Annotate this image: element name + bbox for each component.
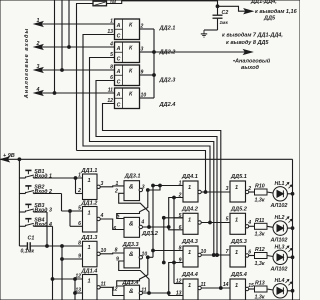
- logic gate ДД4.1: [183, 181, 198, 202]
- wire vx174: [173, 198, 175, 284]
- svg-text:ДД5: ДД5: [263, 16, 276, 22]
- svg-text:&: &: [129, 220, 134, 227]
- output bubble ДД4.4: [198, 286, 201, 289]
- svg-text:HL2: HL2: [275, 215, 285, 221]
- junction dot resistor-row1: [204, 191, 207, 194]
- svg-text:12: 12: [75, 274, 81, 280]
- svg-text:3: 3: [101, 181, 104, 187]
- wire DD3.3 out coupling X: [117, 257, 148, 286]
- svg-text:Вход 4: Вход 4: [35, 222, 53, 228]
- wire DD3.1 out to DD4.1 in1: [148, 186, 183, 191]
- svg-text:5: 5: [179, 213, 182, 219]
- arrow analog input 1: [35, 22, 43, 27]
- junction dot v62-line3: [61, 69, 64, 72]
- junction dot x168 row4: [167, 292, 170, 295]
- wire to DD1.2 pin5: [62, 210, 83, 212]
- wire SB4 jog down: [52, 226, 54, 300]
- wire DD1.3 out to DD3.3 in8: [100, 252, 124, 255]
- output bubble ДД4.2: [198, 221, 201, 224]
- switch section DD2.2 body: [115, 42, 140, 63]
- logic gate ДД3.4: [124, 285, 140, 300]
- junction dot vx153 in8: [152, 249, 155, 252]
- wire row1 in1 ext: [153, 185, 160, 187]
- svg-text:A: A: [116, 23, 121, 29]
- svg-text:&: &: [129, 251, 134, 258]
- junction dot vx153 top: [152, 184, 155, 187]
- svg-text:14: 14: [223, 282, 229, 288]
- svg-text:к выводам 1,16: к выводам 1,16: [255, 9, 298, 15]
- svg-text:АЛ102: АЛ102: [270, 238, 288, 244]
- svg-text:10: 10: [101, 248, 107, 254]
- switch section DD2.3 body: [115, 65, 140, 86]
- svg-text:выход: выход: [241, 65, 260, 71]
- svg-text:1,3к: 1,3к: [255, 261, 265, 267]
- svg-text:8: 8: [115, 247, 118, 253]
- svg-text:АЛ102: АЛ102: [270, 267, 288, 273]
- resistor R12 1,3к: [255, 253, 268, 259]
- svg-text:5: 5: [226, 217, 229, 223]
- svg-text:1: 1: [110, 18, 113, 24]
- wire to выводам 1,16 DD5: [218, 6, 248, 11]
- wire vx163: [163, 218, 165, 263]
- LED arrows HL4: [286, 279, 289, 282]
- svg-text:4: 4: [109, 41, 113, 47]
- wire ДД4.2 out to DD5: [201, 222, 230, 224]
- svg-text:9: 9: [141, 70, 144, 76]
- logic gate ДД4.4: [183, 279, 198, 300]
- junction dot DD3.2 out: [148, 226, 151, 229]
- logic gate ДД4.2: [183, 213, 198, 234]
- svg-text:12: 12: [112, 287, 118, 293]
- svg-text:2: 2: [247, 186, 251, 192]
- svg-text:ДД5.4: ДД5.4: [230, 272, 248, 278]
- svg-text:8: 8: [179, 246, 182, 252]
- output bubble ДД5.4: [245, 287, 248, 290]
- svg-text:6: 6: [248, 249, 251, 255]
- svg-text:R11: R11: [255, 218, 264, 224]
- wire vertical v76 from resistor: [76, 4, 78, 151]
- wire +9V rail: [1, 158, 293, 160]
- output bubble ДД1.2: [97, 217, 100, 220]
- wire resistor line to row1: [77, 151, 206, 193]
- output bubble ДД1.1: [97, 185, 100, 188]
- svg-text:1: 1: [88, 245, 91, 251]
- LED HL1 АЛ102: [273, 187, 287, 201]
- svg-text:8: 8: [78, 241, 81, 247]
- wire vertical v69 from top: [68, 0, 70, 47]
- wire row2 in5 branch: [174, 217, 183, 219]
- output bubble ДД3.3: [139, 256, 142, 259]
- switch SВ1: [19, 177, 25, 179]
- svg-text:1: 1: [115, 181, 118, 187]
- wire ДД4.3 out to DD5: [201, 254, 230, 256]
- wire DD2 control C1 routing: [83, 35, 210, 223]
- arrow analog output: [244, 50, 252, 55]
- junction dot in1 wire: [159, 184, 162, 187]
- svg-text:&: &: [129, 288, 134, 295]
- wire analog input 2 line: [35, 46, 115, 48]
- wire +9V right rail down: [292, 159, 294, 300]
- logic gate ДД4.3: [183, 246, 198, 267]
- junction dot control C1: [209, 221, 212, 224]
- svg-text:9: 9: [78, 254, 81, 260]
- junction dot v62 top: [61, 245, 64, 248]
- LED arrows HL2: [286, 217, 289, 220]
- svg-text:1: 1: [37, 18, 40, 24]
- wire to DD1.2 pin6: [70, 225, 83, 227]
- switch SВ3: [19, 211, 25, 213]
- svg-text:ДД5.1: ДД5.1: [230, 174, 247, 180]
- wire to DD1.4 pin13: [75, 292, 83, 294]
- svg-text:ДД3.2: ДД3.2: [141, 231, 159, 237]
- svg-text:1: 1: [88, 178, 91, 184]
- svg-text:ДД2.4: ДД2.4: [159, 102, 177, 108]
- output bubble ДД4.1: [198, 190, 201, 193]
- svg-text:ДД4.4: ДД4.4: [181, 272, 199, 278]
- svg-text:1: 1: [235, 250, 238, 256]
- wire ДД4.4 out to DD5: [201, 287, 230, 289]
- svg-text:8: 8: [110, 64, 113, 70]
- svg-text:АЛ102: АЛ102: [270, 203, 288, 209]
- svg-text:HL4: HL4: [275, 278, 285, 284]
- output bubble ДД1.4: [97, 286, 100, 289]
- wire SB1 to DD1.1 pin1: [35, 177, 83, 179]
- output bubble ДД3.4: [139, 291, 142, 294]
- svg-text:3: 3: [37, 64, 40, 70]
- svg-text:ДД4.2: ДД4.2: [181, 207, 199, 213]
- svg-text:2: 2: [178, 193, 182, 199]
- svg-text:HL1: HL1: [275, 181, 285, 187]
- junction dot DD3.3 out: [146, 256, 149, 259]
- svg-text:A: A: [116, 46, 121, 52]
- wire DD4.4 in13: [169, 293, 183, 296]
- svg-text:1: 1: [188, 217, 191, 223]
- wire DD1.2 tie bus: [69, 211, 71, 226]
- wire SB3 segment: [35, 211, 47, 213]
- junction dot vx163 bottom: [162, 261, 165, 264]
- svg-text:ДД3.1: ДД3.1: [124, 174, 141, 180]
- svg-text:10: 10: [201, 249, 207, 255]
- wire v62 down: [61, 246, 63, 300]
- output bubble ДД3.1: [139, 188, 142, 191]
- wire DD2 output pin 10: [140, 97, 155, 99]
- svg-text:С1: С1: [28, 236, 35, 242]
- wire DD5 out to R12: [249, 255, 255, 257]
- switch section DD2.4 body: [115, 88, 140, 109]
- junction dot v75 top: [74, 278, 77, 281]
- svg-text:ДД1.4: ДД1.4: [81, 268, 99, 274]
- LED arrows HL3: [286, 246, 289, 249]
- wire DD3.3 in9 coupling: [119, 261, 149, 293]
- svg-text:3: 3: [141, 47, 144, 53]
- wire DD4.2 in6: [169, 227, 183, 230]
- svg-text:11: 11: [201, 282, 206, 288]
- svg-text:2: 2: [140, 24, 144, 30]
- svg-text:1,3к: 1,3к: [255, 197, 265, 203]
- logic gate ДД5.2: [230, 213, 246, 234]
- svg-text:1: 1: [188, 185, 191, 191]
- svg-text:1: 1: [188, 250, 191, 256]
- svg-text:Вход 2: Вход 2: [35, 189, 53, 195]
- wire analog input 4 line: [35, 92, 115, 94]
- svg-text:Вход 1: Вход 1: [35, 174, 53, 180]
- svg-text:1: 1: [235, 217, 238, 223]
- junction dot SB3-C1 wire: [46, 245, 49, 248]
- svg-text:С2: С2: [222, 10, 229, 16]
- wire R11 to HL2: [267, 226, 273, 227]
- svg-text:10: 10: [141, 93, 147, 99]
- capacitor C2: [213, 14, 223, 16]
- svg-text:•Аналоговый: •Аналоговый: [233, 58, 271, 65]
- wire SB3 jog down: [46, 212, 48, 246]
- wire R13 to HL4: [267, 289, 273, 290]
- junction dot control C2: [212, 254, 215, 257]
- svg-text:13: 13: [176, 291, 182, 297]
- svg-text:9: 9: [179, 258, 182, 264]
- wire DD1.2 out to DD3.2 in6: [100, 219, 124, 230]
- logic gate ДД1.3: [83, 241, 98, 266]
- svg-text:ДД3.3: ДД3.3: [122, 242, 140, 248]
- logic gate ДД1.4: [83, 275, 98, 300]
- LED HL3 АЛ102: [273, 250, 287, 264]
- arrow analog input 4: [35, 91, 43, 96]
- resistor R10 1,3к: [255, 189, 268, 195]
- junction dot rail HL4: [291, 289, 294, 292]
- svg-text:к выводам 7 ДД1-ДД4,: к выводам 7 ДД1-ДД4,: [222, 32, 283, 38]
- wire DD2 output pin 3: [140, 51, 155, 53]
- junction dot DD3.4 out: [148, 292, 151, 295]
- wire DD5 out to R11: [249, 225, 255, 227]
- wire analog input 3 line: [35, 69, 115, 71]
- arrow analog input 3: [35, 68, 43, 73]
- wire row2 in5: [164, 217, 183, 219]
- wire DD2 control C2 routing: [90, 58, 214, 256]
- svg-text:1: 1: [188, 283, 191, 289]
- junction dot C2 node: [216, 5, 219, 8]
- wire DD1.1 out to DD3.1 in1: [100, 185, 124, 188]
- svg-text:4: 4: [140, 220, 144, 226]
- wire resistor right to top rail: [107, 1, 218, 4]
- output bubble ДД1.3: [97, 252, 100, 255]
- wire C2 node vertical: [217, 0, 219, 15]
- wire DD3.3 out to DD4.3 in8: [148, 256, 153, 258]
- svg-text:ДД1.3: ДД1.3: [81, 235, 99, 241]
- ground symbol: [203, 30, 205, 34]
- wire left rail down: [18, 159, 20, 246]
- svg-text:1: 1: [235, 283, 238, 289]
- arrow +9V left: [1, 157, 9, 162]
- logic gate ДД5.4: [230, 279, 246, 300]
- wire vertical v62 from top: [61, 0, 63, 70]
- logic gate ДД1.2: [83, 207, 98, 233]
- output bubble ДД5.2: [245, 225, 248, 228]
- junction dot SB4-pin12: [51, 278, 54, 281]
- junction dot DD3.1 out: [146, 189, 149, 192]
- wire HL3 to rail: [287, 256, 292, 258]
- junction dot rail HL1: [291, 192, 294, 195]
- wire row3 in8: [153, 250, 183, 252]
- wire C2 bottom to ground: [217, 19, 219, 30]
- svg-text:ДД4.3: ДД4.3: [181, 239, 199, 245]
- svg-text:1: 1: [179, 181, 182, 187]
- svg-text:A: A: [116, 92, 121, 98]
- svg-text:4: 4: [36, 87, 40, 93]
- wire DD5 out to R13: [249, 288, 255, 290]
- svg-text:13: 13: [75, 288, 81, 294]
- wire resistor left to vertical: [76, 3, 93, 5]
- svg-text:11: 11: [101, 281, 106, 287]
- resistor R13 1,3к: [255, 286, 268, 292]
- svg-text:6: 6: [78, 221, 81, 227]
- junction dot v62 pin9: [61, 258, 64, 261]
- junction dot vx174 top: [173, 196, 176, 199]
- logic gate ДД5.3: [230, 246, 246, 267]
- output bubble ДД3.2: [139, 225, 142, 228]
- svg-text:4: 4: [247, 220, 251, 226]
- resistor R11 1,3к: [255, 223, 268, 229]
- arrow к выводам 1,16: [244, 9, 252, 14]
- svg-text:R13: R13: [255, 281, 265, 287]
- LED HL4 АЛ102: [273, 284, 287, 298]
- svg-text:1: 1: [78, 173, 81, 179]
- junction dot v217 row3: [216, 254, 219, 257]
- junction dot v213 row3: [212, 254, 215, 257]
- wire R12 to HL3: [267, 256, 273, 257]
- wire DD3.1 out coupling X: [117, 190, 148, 219]
- wire HL1 to rail: [287, 193, 292, 195]
- svg-text:С: С: [117, 56, 121, 62]
- wire HL4 to rail: [287, 290, 292, 292]
- svg-text:ДД1.1: ДД1.1: [81, 168, 98, 174]
- svg-text:+ 9В: + 9В: [3, 153, 15, 159]
- svg-text:R12: R12: [255, 247, 265, 253]
- wire DD1.1 pin2: [76, 193, 83, 195]
- junction dot rail HL2: [291, 227, 294, 230]
- junction dot rail HL3: [291, 256, 294, 259]
- svg-text:11: 11: [141, 287, 146, 293]
- svg-text:С: С: [117, 79, 121, 85]
- svg-text:к выводу 8 ДД5: к выводу 8 ДД5: [226, 40, 269, 46]
- wire SB2 segment: [35, 193, 62, 195]
- svg-text:3: 3: [226, 186, 229, 192]
- wire DD5 out to R10: [249, 191, 255, 193]
- wire R10 to HL1: [267, 192, 273, 193]
- junction dot rail drop: [18, 158, 21, 161]
- wire DD3.4 out to DD4.3 in9: [149, 263, 183, 294]
- wire vertical v54 from top: [54, 0, 56, 93]
- arrow analog input 2: [35, 45, 43, 50]
- resistor R1 1М (trimmer): [93, 1, 107, 6]
- logic gate ДД1.1: [83, 174, 98, 200]
- wire DD3.1 in2 coupling: [119, 193, 149, 227]
- svg-text:1мк: 1мк: [220, 20, 229, 25]
- svg-text:6: 6: [113, 226, 116, 232]
- svg-text:Вход 3: Вход 3: [35, 208, 53, 214]
- junction dot vx174 in9: [173, 261, 176, 264]
- svg-text:6: 6: [179, 225, 182, 231]
- switch section DD2.1 body: [115, 19, 140, 40]
- svg-text:ДД2.1: ДД2.1: [159, 26, 176, 32]
- svg-text:15: 15: [248, 283, 254, 289]
- junction dot v54-line4: [53, 92, 56, 95]
- wire DD1.1 tie bus: [75, 178, 77, 194]
- logic gate ДД3.3: [124, 248, 140, 268]
- wire DD1.4 out to DD3.4 in13: [100, 287, 124, 295]
- switch SВ2: [19, 193, 25, 195]
- switch SВ4: [19, 225, 25, 227]
- LED HL2 АЛ102: [273, 221, 287, 235]
- capacitor C1: [19, 245, 26, 247]
- svg-text:R10: R10: [255, 184, 265, 190]
- LED arrows HL1: [286, 182, 289, 185]
- wire vx153: [152, 186, 154, 258]
- logic gate ДД3.2: [124, 217, 140, 237]
- svg-text:ДД2.3: ДД2.3: [159, 78, 177, 84]
- output bubble ДД5.1: [245, 190, 248, 193]
- svg-text:11: 11: [108, 87, 113, 93]
- svg-text:1: 1: [235, 185, 238, 191]
- svg-text:ДД1-ДД4,: ДД1-ДД4,: [250, 0, 277, 5]
- output bubble ДД5.3: [245, 254, 248, 257]
- junction dot bus pin9: [153, 74, 156, 77]
- svg-text:5: 5: [78, 206, 81, 212]
- svg-text:3: 3: [142, 185, 145, 191]
- svg-text:4: 4: [100, 213, 104, 219]
- junction dot vx163 top: [162, 216, 165, 219]
- junction dot v75 pin13: [74, 292, 77, 295]
- junction dot control C3: [216, 254, 219, 257]
- svg-text:ДД1.2: ДД1.2: [81, 200, 99, 206]
- junction dot v69-line2: [68, 46, 71, 49]
- wire DD2 output bus: [153, 29, 155, 98]
- junction dot control C4: [219, 287, 222, 290]
- junction dot x168 row2: [167, 226, 170, 229]
- wire SB2 jog down: [61, 194, 63, 212]
- wire to DD1.3 pin9: [62, 258, 83, 260]
- wire SB4 segment: [35, 225, 53, 227]
- svg-text:1: 1: [88, 278, 91, 284]
- logic gate ДД5.1: [230, 181, 246, 202]
- wire ДД4.1 out to DD5: [201, 191, 230, 193]
- svg-text:1: 1: [88, 210, 91, 216]
- wire DD3.2 out to DD4.1 in2: [149, 198, 183, 228]
- svg-text:0,1мк: 0,1мк: [21, 249, 35, 255]
- wire analog output: [154, 51, 248, 53]
- svg-text:HL3: HL3: [275, 244, 285, 250]
- junction dot tie DD1.2: [69, 210, 72, 213]
- wire analog input 1 line: [35, 23, 115, 25]
- wire DD2 control C4 routing: [103, 104, 221, 289]
- wire v75 DD1.4 tie: [74, 279, 76, 300]
- svg-text:С: С: [117, 102, 121, 108]
- wire row4 in12: [174, 283, 183, 285]
- svg-text:С: С: [117, 33, 121, 39]
- wire DD2 output pin 2: [140, 28, 155, 30]
- junction dot tie DD1.1: [74, 177, 77, 180]
- junction dot bus pin3: [153, 51, 156, 54]
- svg-text:ДД4.1: ДД4.1: [181, 174, 198, 180]
- svg-text:&: &: [129, 184, 134, 191]
- logic gate ДД3.1: [124, 181, 140, 201]
- svg-text:1,3к: 1,3к: [255, 232, 265, 238]
- wire to DD1.4 pin12: [53, 278, 83, 280]
- svg-text:2: 2: [77, 188, 81, 194]
- svg-text:Аналоговые входы: Аналоговые входы: [24, 28, 30, 100]
- svg-text:ДД5.2: ДД5.2: [230, 207, 248, 213]
- svg-text:2: 2: [114, 189, 118, 195]
- svg-text:12: 12: [176, 279, 182, 285]
- output bubble ДД4.3: [198, 253, 201, 256]
